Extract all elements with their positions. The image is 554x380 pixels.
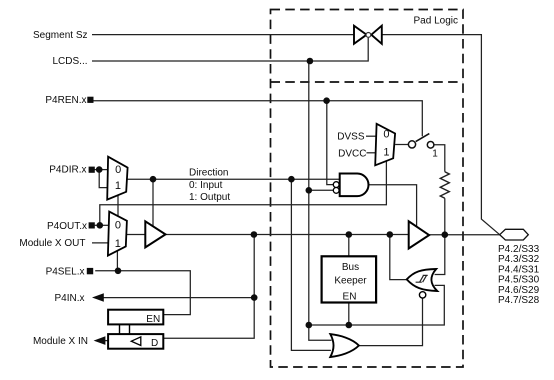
svg-text:1: 1	[383, 147, 389, 159]
svg-text:P4IN.x: P4IN.x	[54, 293, 84, 304]
svg-text:Module X OUT: Module X OUT	[19, 238, 85, 249]
svg-text:P4REN.x: P4REN.x	[45, 95, 86, 106]
svg-text:Segment Sz: Segment Sz	[33, 30, 87, 41]
svg-text:0: 0	[115, 164, 121, 176]
svg-text:Keeper: Keeper	[334, 275, 367, 286]
svg-text:EN: EN	[343, 292, 357, 303]
svg-text:LCDS...: LCDS...	[52, 56, 87, 67]
svg-text:Bus: Bus	[342, 262, 359, 273]
svg-text:1: 1	[432, 148, 438, 159]
svg-text:Pad Logic: Pad Logic	[414, 16, 458, 27]
svg-text:0: 0	[115, 219, 121, 231]
svg-text:P4OUT.x: P4OUT.x	[47, 221, 87, 232]
svg-text:D: D	[151, 338, 158, 349]
svg-text:P4.7/S28: P4.7/S28	[498, 295, 540, 306]
svg-text:P4DIR.x: P4DIR.x	[49, 165, 86, 176]
svg-text:1: 1	[115, 238, 121, 250]
svg-text:DVSS: DVSS	[337, 131, 365, 142]
svg-text:0: 0	[383, 128, 389, 140]
svg-text:1: 1	[115, 180, 121, 192]
svg-text:0: Input: 0: Input	[189, 180, 223, 191]
svg-text:DVCC: DVCC	[338, 148, 366, 159]
svg-text:1: Output: 1: Output	[189, 192, 230, 203]
svg-text:P4SEL.x: P4SEL.x	[46, 266, 85, 277]
svg-text:Direction: Direction	[189, 168, 228, 179]
svg-text:EN: EN	[146, 314, 160, 325]
svg-text:Module X IN: Module X IN	[33, 336, 88, 347]
